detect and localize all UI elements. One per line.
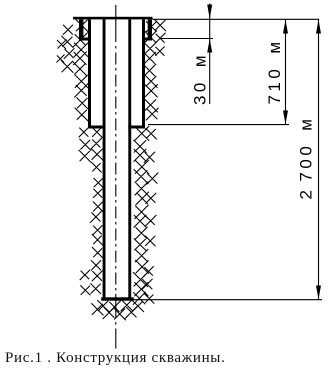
svg-text:30 м: 30 м xyxy=(191,52,210,105)
svg-text:2 700 м: 2 700 м xyxy=(297,116,316,200)
svg-text:710 м: 710 м xyxy=(265,38,284,104)
